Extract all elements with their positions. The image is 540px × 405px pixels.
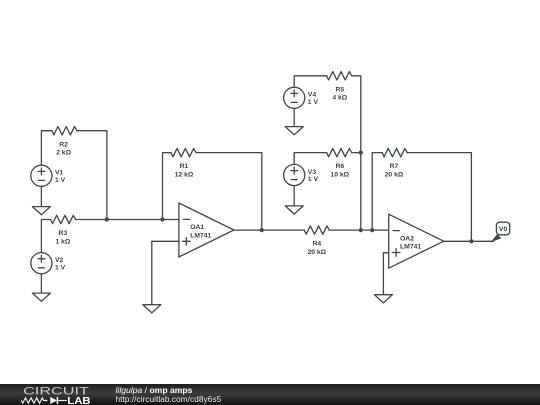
wire OA1 non-inverting input to ground — [152, 241, 179, 304]
svg-text:1 V: 1 V — [55, 264, 66, 271]
svg-text:OA1: OA1 — [190, 224, 204, 231]
wire V4 bottom to ground — [293, 108, 295, 126]
footer url line — [116, 394, 222, 404]
svg-text:V4: V4 — [308, 92, 317, 99]
voltage source V4 — [284, 87, 319, 108]
CircuitLab logo resistor-diode glyph — [21, 397, 67, 404]
voltage source V1 — [31, 165, 66, 186]
resistor R6 — [327, 148, 352, 178]
wire OA2 non-inverting input to ground — [383, 253, 388, 295]
footer bar — [0, 384, 540, 405]
resistor R4 — [304, 226, 329, 256]
wire node A to V2 top — [41, 220, 50, 253]
svg-text:LAB: LAB — [67, 396, 91, 405]
junction OA1 output / R1 — [260, 228, 264, 232]
junction R5/R6 node — [359, 151, 363, 155]
node V0 output flag — [491, 222, 510, 242]
junction node A at R2/R3 — [105, 217, 109, 221]
svg-text:R4: R4 — [312, 241, 321, 248]
wire OA1 output to R4 left — [234, 229, 304, 231]
voltage source V2 — [31, 253, 66, 274]
voltage source V3 — [284, 164, 319, 185]
svg-text:LM741: LM741 — [400, 244, 421, 251]
svg-text:1 kΩ: 1 kΩ — [55, 238, 70, 245]
ground under V2 — [32, 293, 50, 301]
svg-text:R7: R7 — [390, 163, 399, 170]
footer author / title line — [116, 385, 193, 395]
ground under V4 — [285, 127, 303, 135]
svg-text:V0: V0 — [499, 226, 508, 233]
svg-text:OA2: OA2 — [400, 235, 414, 242]
op-amp OA1 — [179, 203, 234, 257]
CircuitLab logo wordmark LAB — [67, 396, 91, 405]
svg-text:V2: V2 — [55, 257, 64, 264]
wire OA2 input node up to R7 left — [372, 153, 382, 231]
CircuitLab logo wordmark CIRCUIT — [23, 385, 90, 397]
wire R1 right down to OA1 output — [196, 153, 262, 231]
junction OA2 output / R7 — [469, 239, 473, 243]
wire OA2 output to V0 flag — [444, 240, 494, 242]
junction R7 tap / OA2 input — [370, 228, 374, 232]
junction R5 column / R4 row — [359, 228, 363, 232]
svg-text:1 V: 1 V — [308, 176, 319, 183]
svg-text:1 V: 1 V — [308, 99, 319, 106]
wire R3 to OA1 inverting input — [76, 219, 179, 221]
svg-text:R5: R5 — [335, 86, 344, 93]
ground under OA2 non-inverting input — [374, 295, 392, 303]
svg-text:V3: V3 — [308, 169, 317, 176]
svg-text:20 kΩ: 20 kΩ — [307, 249, 326, 256]
wire R2 right down to node A — [77, 131, 107, 220]
wire R6 right to node B column — [352, 152, 361, 154]
resistor R1 — [171, 148, 196, 178]
svg-text:V1: V1 — [55, 170, 64, 177]
wire R5 right down to node B — [352, 76, 361, 230]
resistor R5 — [327, 72, 352, 102]
wire V1 bottom to ground — [40, 186, 42, 206]
svg-text:4 kΩ: 4 kΩ — [332, 95, 347, 102]
svg-text:20 kΩ: 20 kΩ — [385, 172, 404, 179]
ground under V1 — [32, 207, 50, 215]
wire R4 right to OA2 inverting input — [329, 229, 388, 231]
svg-text:2 kΩ: 2 kΩ — [56, 150, 71, 157]
ground under OA1 non-inverting input — [143, 305, 161, 313]
svg-text:1 V: 1 V — [55, 177, 66, 184]
svg-text:R6: R6 — [335, 163, 344, 170]
svg-text:R2: R2 — [59, 141, 68, 148]
op-amp OA2 — [389, 214, 444, 268]
wire node A up to R1 left — [163, 153, 172, 220]
ground under V3 — [285, 206, 303, 214]
svg-text:10 kΩ: 10 kΩ — [330, 172, 349, 179]
wire V4 top to R5 left — [294, 76, 327, 87]
svg-text:12 kΩ: 12 kΩ — [175, 172, 194, 179]
resistor R3 — [51, 215, 76, 245]
wire R7 right down to OA2 output — [407, 153, 471, 242]
junction node A at R1 tap — [160, 217, 164, 221]
resistor R7 — [382, 148, 407, 178]
wire V1 top to R2 left — [41, 131, 52, 166]
wire V3 bottom to ground — [293, 186, 295, 206]
wire V3 top to R6 left — [294, 153, 327, 165]
svg-text:R1: R1 — [180, 163, 189, 170]
wire V2 bottom to ground — [40, 274, 42, 293]
svg-text:R3: R3 — [59, 230, 68, 237]
svg-text:LM741: LM741 — [190, 232, 211, 239]
resistor R2 — [52, 126, 77, 156]
